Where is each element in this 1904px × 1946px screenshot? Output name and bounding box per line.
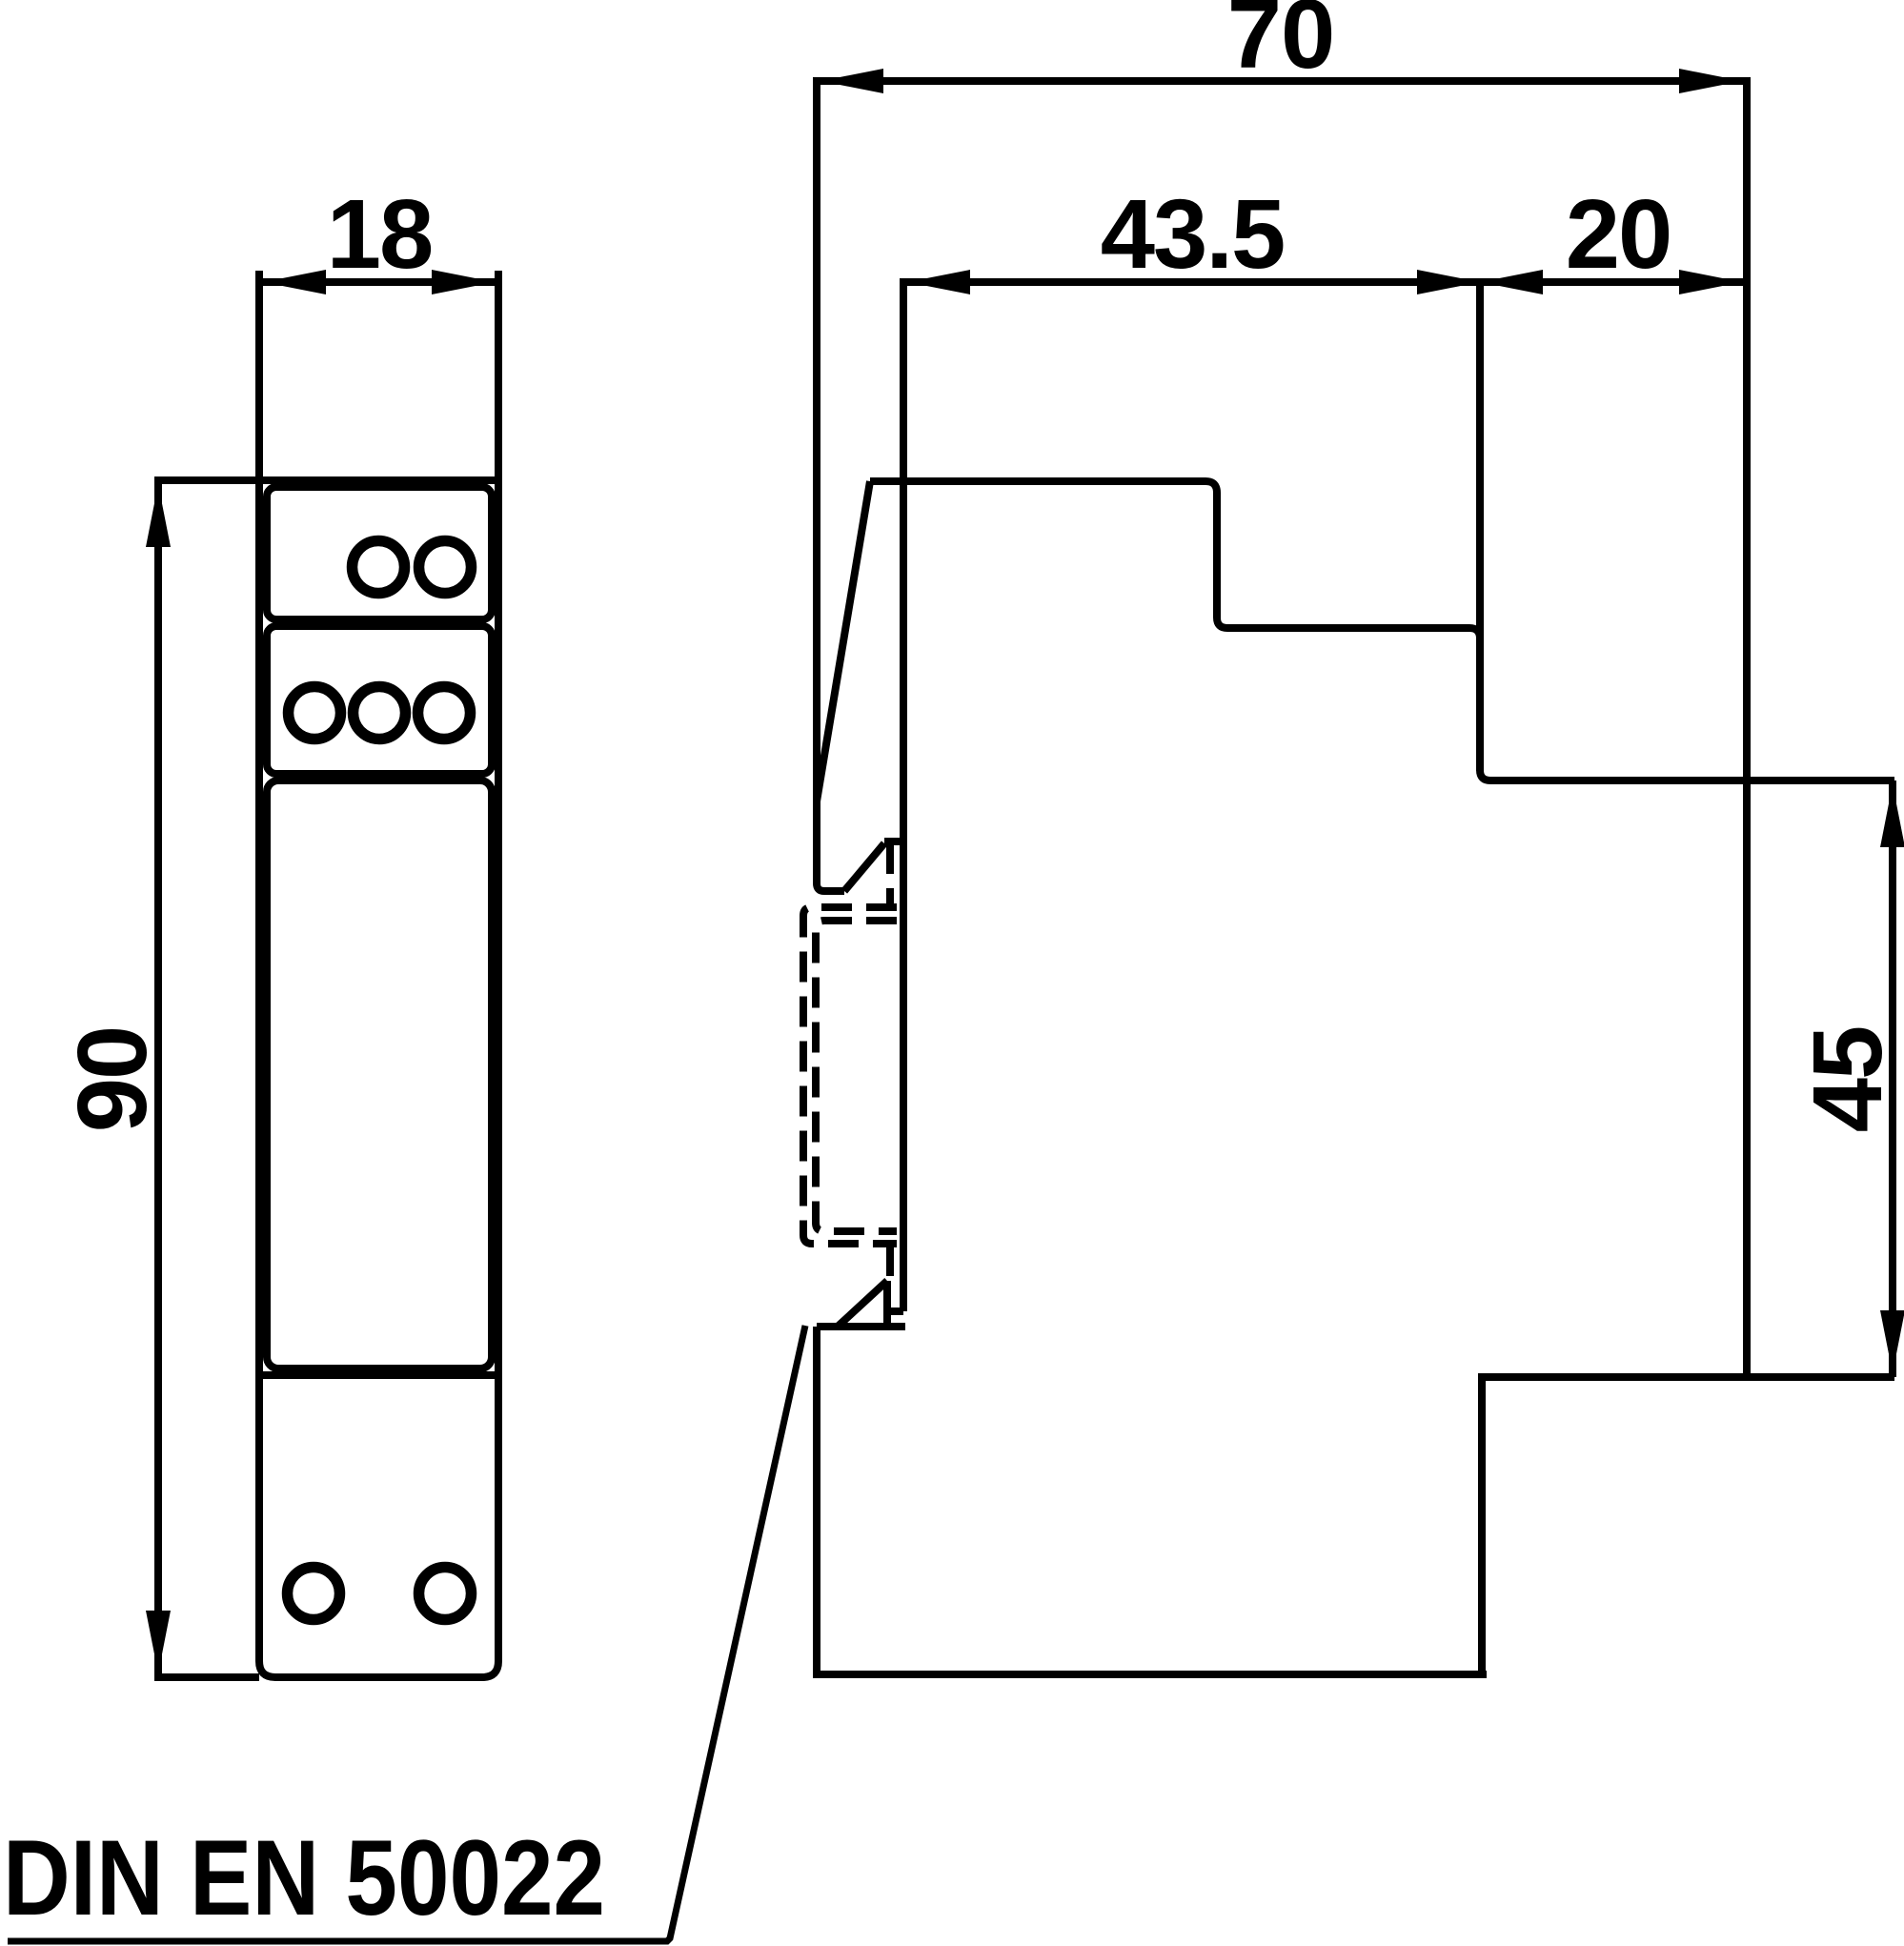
DIN rail top lip dashed bbox=[886, 843, 894, 905]
terminal hole A1 bbox=[353, 541, 405, 594]
clip foot slant bbox=[844, 843, 884, 891]
45 dim arrow bottom bbox=[1880, 1310, 1904, 1373]
clip bottom claw vertical bbox=[883, 1281, 891, 1326]
20 dim arrow right bbox=[1679, 270, 1742, 294]
step extension line 43.5/20 bbox=[1476, 278, 1484, 771]
clip bottom face corner bbox=[888, 1307, 903, 1315]
45 dim arrow top bbox=[1880, 784, 1904, 847]
terminal panel 1 bbox=[267, 487, 492, 619]
terminal panel 2 bbox=[267, 626, 492, 774]
90 dim arrow top bbox=[146, 484, 171, 547]
leader line to DIN rail bbox=[8, 1326, 805, 1941]
svg-text:43.5: 43.5 bbox=[1101, 179, 1284, 289]
18 dim arrow left bbox=[263, 270, 326, 294]
bottom hole left bbox=[288, 1568, 340, 1620]
45 dim line bbox=[1889, 780, 1896, 1377]
side view bottom step horizontal with 45 extension bbox=[1482, 1377, 1894, 1674]
rail mount face line / 43.5 extension bbox=[900, 278, 907, 1311]
43.5 dim arrow right bbox=[1417, 270, 1480, 294]
DIN rail bottom lip dashed bbox=[886, 1246, 894, 1277]
side view back bottom edge bbox=[813, 1327, 820, 1678]
43.5 and 20 dim line bbox=[903, 278, 1746, 286]
front view top edge / 18 dim line bbox=[259, 278, 498, 286]
svg-text:20: 20 bbox=[1566, 179, 1671, 289]
svg-text:DIN EN 50022: DIN EN 50022 bbox=[3, 1818, 605, 1937]
90 dim line bbox=[154, 480, 162, 1677]
front face boundary line bottom bbox=[259, 1371, 498, 1379]
front view module outline bbox=[259, 271, 498, 1677]
side view back slant bbox=[817, 481, 870, 801]
terminal hole B2 bbox=[354, 687, 406, 740]
side view step2 horizontal with 45 extension bbox=[1480, 770, 1894, 780]
side view right face / 70 extension right bbox=[1743, 77, 1751, 1377]
side view top face bbox=[870, 481, 1480, 639]
clip hook top edge bbox=[884, 838, 903, 845]
20 dim arrow left bbox=[1480, 270, 1543, 294]
clip bottom claw slant bbox=[839, 1281, 887, 1326]
43.5 dim arrow left bbox=[907, 270, 970, 294]
bottom hole right bbox=[419, 1568, 472, 1620]
90 dim bottom extension line bbox=[154, 1673, 259, 1681]
DIN rail outer profile dashed bbox=[803, 907, 897, 1244]
terminal hole A2 bbox=[419, 541, 472, 594]
front face boundary line top with 90 extension bbox=[154, 476, 498, 484]
terminal hole B1 bbox=[289, 687, 341, 740]
clip bottom horizontal bbox=[817, 1323, 905, 1330]
70 dim line bbox=[817, 77, 1746, 85]
70 dim arrow left bbox=[820, 69, 883, 93]
svg-text:90: 90 bbox=[57, 1027, 167, 1133]
front face panel 3 bbox=[267, 780, 492, 1368]
svg-text:18: 18 bbox=[327, 179, 433, 289]
90 dim arrow bottom bbox=[146, 1611, 171, 1673]
svg-text:70: 70 bbox=[1227, 0, 1335, 89]
DIN rail inner profile dashed bbox=[816, 921, 897, 1231]
terminal hole B3 bbox=[418, 687, 471, 740]
18 dim arrow right bbox=[432, 270, 495, 294]
side view bottom face bbox=[817, 1671, 1487, 1678]
70 dim arrow right bbox=[1679, 69, 1742, 93]
svg-text:45: 45 bbox=[1793, 1027, 1902, 1133]
side view back edge / 70 extension left bbox=[817, 77, 844, 891]
